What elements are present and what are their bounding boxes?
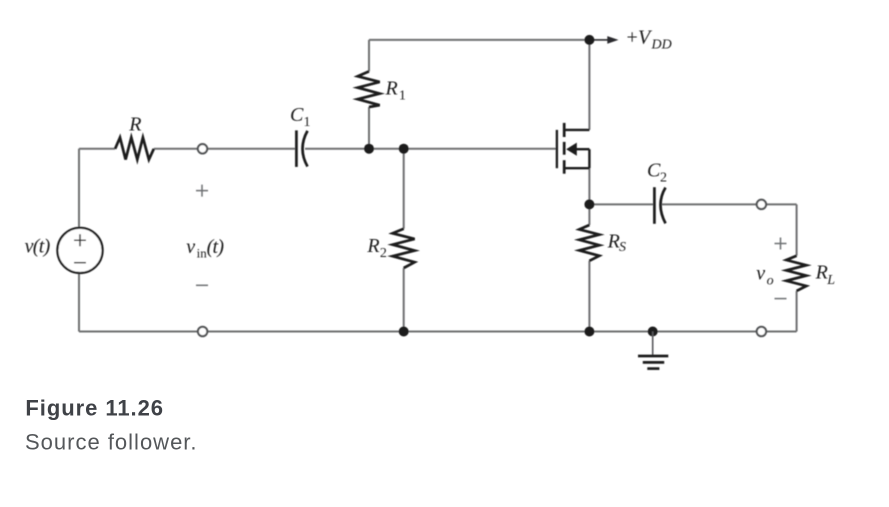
node dot top rail (584, 35, 594, 45)
wire R1 top lead (368, 40, 370, 72)
wire C2 to output node (662, 203, 797, 205)
wire R2 top lead (403, 149, 405, 229)
ground (638, 332, 668, 369)
svg-text:v: v (186, 236, 195, 258)
vin(t) label with plus and minus (186, 185, 224, 286)
svg-text:(t): (t) (207, 236, 225, 258)
+VDD arrow (594, 36, 619, 44)
svg-text:C: C (647, 160, 661, 182)
capacitor C1 (290, 104, 311, 167)
svg-text:S: S (619, 240, 626, 255)
svg-text:DD: DD (651, 38, 672, 53)
wire left vertical from source v(t) to bottom rail (78, 273, 80, 332)
resistor RS (579, 225, 626, 261)
svg-text:R: R (366, 235, 379, 257)
wire mid rail left of R (79, 148, 115, 150)
wire left vertical from R down to source v(t) (78, 149, 80, 228)
resistor R1 (358, 71, 406, 107)
svg-text:Source follower.: Source follower. (25, 430, 198, 455)
wire mid rail R to C1 (154, 148, 295, 150)
svg-text:L: L (826, 273, 835, 288)
wire node to C2 (589, 203, 653, 205)
node terminal open circle (output top) (757, 200, 766, 209)
wire R1 bottom lead (368, 107, 370, 149)
node dot C1-R1 junction (364, 144, 374, 154)
svg-text:1: 1 (399, 88, 406, 103)
svg-text:1: 1 (304, 115, 311, 130)
svg-text:2: 2 (380, 246, 387, 261)
svg-text:R: R (815, 262, 828, 284)
wire mid rail C1 to gate (305, 148, 556, 150)
vo label with plus and minus (756, 238, 786, 299)
svg-text:C: C (290, 104, 304, 126)
svg-text:R: R (607, 231, 620, 253)
resistor RL (786, 256, 835, 291)
wire top rail (369, 39, 589, 41)
svg-text:v(t): v(t) (25, 236, 51, 258)
node dot R2 bottom (399, 327, 409, 337)
node terminal open circle (input top) (198, 144, 207, 153)
wire MOSFET drain vertical (588, 40, 590, 130)
node dot source-RS-C2 junction (584, 199, 594, 209)
node dot ground junction (648, 327, 658, 337)
wire MOSFET source to node (588, 168, 590, 205)
transistor Q1 (n-channel MOSFET) (557, 123, 590, 174)
svg-text:v: v (756, 263, 765, 285)
+VDD label (627, 27, 672, 53)
svg-text:R: R (128, 114, 141, 136)
wire bottom rail (79, 331, 797, 333)
svg-text:2: 2 (660, 171, 667, 186)
wire right vertical RL top lead (796, 204, 798, 255)
node terminal open circle (input bottom) (198, 327, 207, 336)
wire R2 bottom lead (403, 268, 405, 332)
capacitor C2 (647, 160, 667, 224)
node dot RS bottom (584, 327, 594, 337)
voltage source v(t) (25, 228, 103, 273)
node terminal open circle (output bottom) (757, 327, 766, 336)
svg-text:Figure 11.26: Figure 11.26 (25, 396, 164, 421)
svg-text:+: + (627, 27, 638, 49)
svg-text:o: o (767, 273, 774, 288)
resistor R2 (366, 229, 414, 268)
node dot R2-gate junction (399, 144, 409, 154)
resistor R (115, 114, 154, 160)
svg-text:R: R (385, 77, 398, 99)
wire RL bottom lead (796, 291, 798, 332)
wire RS top lead (588, 205, 590, 225)
wire RS bottom lead (588, 261, 590, 332)
